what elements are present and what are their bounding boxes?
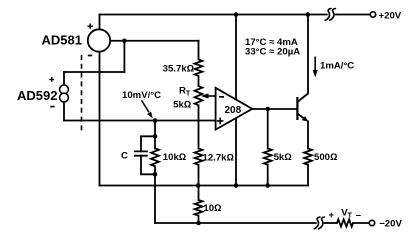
arrow 10mV/degC pointing to node	[142, 100, 150, 112]
wire op-amp output to transistor base	[252, 108, 297, 110]
terminal -20V	[369, 220, 374, 225]
wire AD581 minus lead down to bottom rail	[99, 52, 101, 186]
resistor 10 ohm zigzag	[195, 200, 203, 216]
wire VT to minus terminal	[353, 222, 369, 224]
wire top rail left segment	[100, 14, 327, 16]
junction node cap top	[153, 134, 158, 139]
svg-text:33°C ≈ 20µA: 33°C ≈ 20µA	[245, 47, 300, 58]
wire op-amp supply through-line	[235, 15, 237, 186]
wire AD592 minus lead	[63, 101, 65, 121]
AD581 minus sign	[88, 55, 92, 57]
junction node AD581 output	[122, 38, 127, 43]
wire AD581 plus lead	[99, 15, 101, 30]
wire lower rail	[155, 222, 316, 224]
arrow 1mA/degC	[314, 57, 316, 71]
svg-text:AD581: AD581	[42, 32, 82, 47]
wire 10k bottom to lower rail	[154, 174, 156, 223]
wire AD592 plus lead	[63, 72, 65, 86]
svg-text:12.7kΩ: 12.7kΩ	[203, 152, 234, 163]
svg-text:10mV/°C: 10mV/°C	[122, 90, 161, 101]
voltage source AD581	[88, 29, 110, 51]
svg-text:208: 208	[225, 105, 242, 116]
wire resistor chain vertical	[198, 41, 200, 223]
resistor VT zigzag	[337, 219, 353, 226]
junction node bottom rail supply	[234, 183, 239, 188]
wire main node horizontal to op-amp plus input	[64, 120, 216, 122]
wire 5k right vertical	[267, 109, 269, 186]
current source AD592	[60, 85, 69, 94]
wire AD592 top horizontal	[64, 71, 124, 73]
resistor 500 ohm zigzag	[304, 149, 312, 165]
svg-text:5kΩ: 5kΩ	[274, 152, 292, 163]
svg-text:VT: VT	[341, 207, 352, 219]
resistor 12.7k zigzag	[195, 149, 203, 165]
terminal +20V	[370, 12, 375, 17]
wire node A vertical from output dot	[123, 41, 125, 72]
wire 10k branch	[154, 136, 156, 174]
svg-text:−: −	[356, 210, 361, 220]
junction node op-amp output	[265, 107, 270, 112]
wire transistor emitter vertical through 500 ohm	[307, 121, 309, 185]
svg-text:RT: RT	[179, 86, 191, 98]
break symbol top	[325, 9, 335, 21]
op-amp minus input sign	[219, 96, 224, 98]
svg-text:AD592: AD592	[17, 88, 57, 103]
resistor 35.7k zigzag	[195, 60, 203, 76]
svg-text:35.7kΩ: 35.7kΩ	[163, 64, 194, 75]
junction node bottom rail 5k	[265, 183, 270, 188]
wire AD581 output to resistor chain top	[111, 40, 199, 42]
wire cap branch	[141, 136, 155, 174]
svg-text:10Ω: 10Ω	[203, 203, 221, 214]
transistor collector diagonal	[297, 94, 308, 103]
resistor 5k right zigzag	[264, 149, 272, 165]
wire transistor collector vertical	[307, 15, 309, 94]
junction node top rail collector	[306, 12, 311, 17]
svg-text:500Ω: 500Ω	[314, 152, 337, 163]
resistor 10k zigzag	[151, 148, 159, 166]
wire bottom rail	[100, 185, 309, 187]
transistor emitter diagonal with arrow	[297, 114, 306, 121]
junction node top rail supply	[234, 12, 239, 17]
svg-text:+20V: +20V	[379, 11, 402, 22]
svg-text:−20V: −20V	[379, 218, 402, 229]
op-amp U1 208	[216, 88, 253, 130]
junction node cap bottom	[153, 172, 158, 177]
svg-text:C: C	[121, 150, 128, 161]
wire cap network top lead	[154, 121, 156, 137]
transistor Q1 base bar	[296, 97, 298, 120]
svg-text:1mA/°C: 1mA/°C	[320, 61, 354, 72]
AD592 plus sign	[49, 77, 54, 82]
dashed boundary line	[81, 55, 83, 133]
AD592 minus sign	[50, 106, 54, 108]
junction node main wire	[153, 118, 158, 123]
break symbol bottom	[314, 217, 324, 229]
wire top rail right segment	[336, 14, 371, 16]
wire lower rail right segment	[325, 222, 337, 224]
potentiometer RT zigzag	[195, 86, 203, 105]
svg-text:5kΩ: 5kΩ	[173, 99, 191, 110]
junction node bottom rail 12.7k	[196, 183, 201, 188]
junction node lower rail 10 ohm	[196, 221, 201, 226]
svg-text:+: +	[329, 210, 334, 220]
svg-text:10kΩ: 10kΩ	[163, 152, 186, 163]
potentiometer wiper arrow	[208, 95, 216, 97]
op-amp plus input sign	[217, 118, 224, 125]
AD581 plus sign	[88, 24, 93, 29]
capacitor C plates	[134, 151, 148, 155]
